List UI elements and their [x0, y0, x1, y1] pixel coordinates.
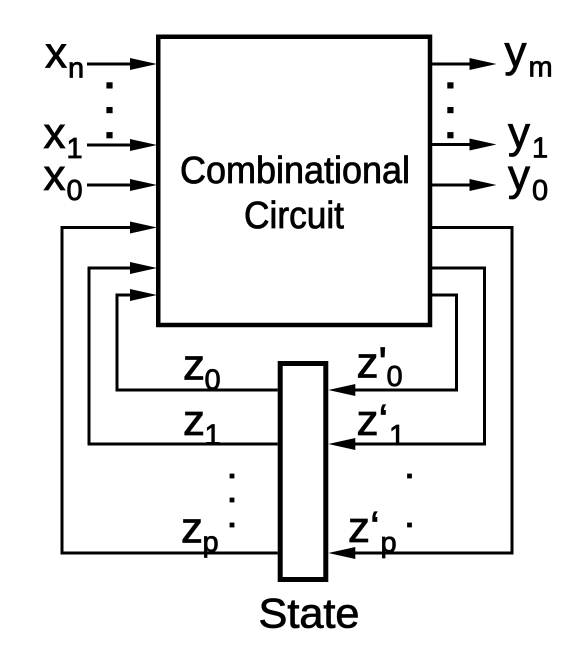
svg-text:p: p: [203, 527, 219, 559]
svg-text:0: 0: [532, 175, 548, 207]
svg-text:z‘: z‘: [348, 503, 380, 552]
svg-text:z‘: z‘: [357, 396, 389, 445]
svg-text:0: 0: [205, 365, 221, 397]
svg-text:z: z: [181, 503, 203, 552]
svg-text:z': z': [357, 339, 387, 388]
svg-text:State: State: [259, 590, 360, 637]
svg-text:Combinational: Combinational: [180, 150, 410, 192]
svg-text:1: 1: [389, 420, 405, 452]
svg-text:n: n: [68, 53, 84, 85]
svg-text:y: y: [505, 28, 527, 77]
svg-text:1: 1: [67, 133, 83, 165]
svg-text:z: z: [183, 341, 205, 390]
svg-text:x: x: [45, 29, 67, 78]
svg-text:z: z: [183, 396, 205, 445]
svg-text:1: 1: [205, 420, 221, 452]
svg-text:1: 1: [532, 133, 548, 165]
svg-text:y: y: [508, 151, 530, 200]
svg-text:m: m: [529, 52, 553, 84]
svg-text:0: 0: [387, 361, 403, 393]
svg-text:x: x: [44, 151, 66, 200]
svg-text:Circuit: Circuit: [244, 195, 344, 237]
svg-text:p: p: [381, 527, 397, 559]
svg-text:0: 0: [67, 175, 83, 207]
